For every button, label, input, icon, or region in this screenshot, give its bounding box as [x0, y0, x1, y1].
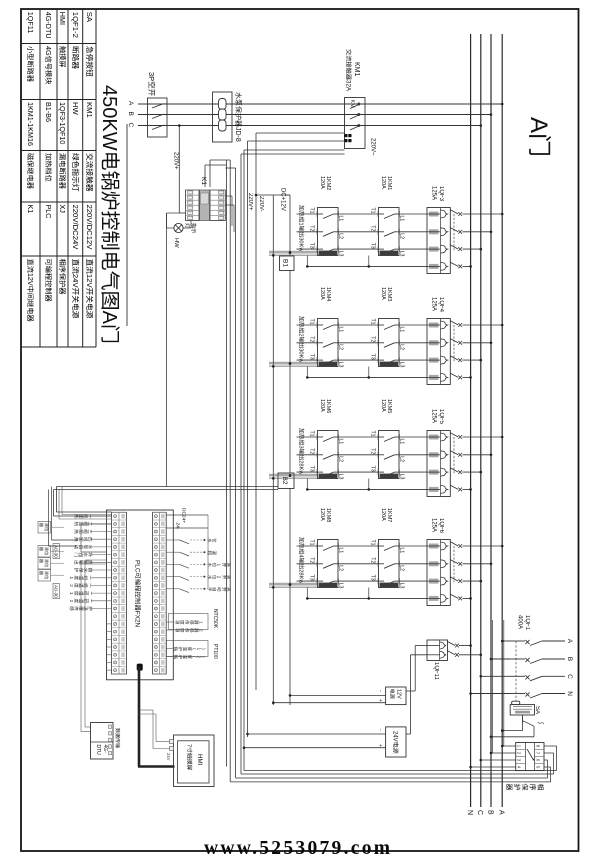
thermal pad 1QF5 pole [429, 435, 439, 440]
legend table [95, 9, 97, 347]
svg-text:KM1: KM1 [85, 102, 94, 118]
breaker contact X mark 1QF4 pole 4 [458, 376, 462, 380]
wire heater output 加热组2输出30Kw [297, 342, 318, 344]
svg-text:1QF1: 1QF1 [524, 615, 530, 631]
junction B2 [278, 473, 294, 489]
thermal pad 1QF4 pole [429, 358, 439, 363]
svg-text:2: 2 [298, 333, 304, 336]
label 加热组1输出30Kw [299, 205, 304, 210]
wire 1QF6 pole 3 from bus C [463, 580, 481, 582]
wire tap parallel to bus B [492, 620, 494, 753]
svg-text:30Kw: 30Kw [298, 237, 304, 252]
contactor 1KM7 120A body [379, 540, 400, 588]
svg-text:A: A [98, 311, 120, 325]
node N stub lower [306, 265, 309, 268]
svg-text:N: N [566, 691, 573, 696]
table cell 可编程控制器 [45, 259, 51, 265]
svg-text:C: C [127, 123, 134, 128]
label 加热组4输出28Kw [299, 537, 304, 542]
wire 1KM3 to 1KM4 phase [338, 324, 379, 326]
bus A (phase A horizontal bus) [501, 34, 503, 807]
node 1QF11 on bus N [469, 644, 472, 647]
dashed trip link 1QF4 [453, 325, 455, 361]
wire 1QF5 to 1KM5 [399, 471, 427, 473]
svg-text:1QF5: 1QF5 [438, 409, 444, 425]
svg-text:T2: T2 [370, 336, 376, 342]
wire 1QF3 to 1KM1 [399, 231, 427, 233]
svg-text:120A: 120A [380, 508, 386, 521]
breaker 1QF4 125A body [427, 319, 450, 385]
breaker blade 1QF3 pole 1 [450, 210, 458, 214]
PLC output wires and labels [91, 515, 112, 517]
coil wire bundle 1KM4 group [269, 361, 318, 363]
wire XJ top loop to control runs [544, 766, 551, 768]
svg-text:T1: T1 [370, 208, 376, 214]
thermal pad 1QF4 pole [429, 375, 439, 380]
wire heater output 加热组3输出28Kw [297, 471, 318, 473]
wire DC24V pair B2 to PLC [57, 486, 279, 488]
protector JD-8 water pump protector [213, 92, 233, 142]
node phase C on bus [480, 124, 483, 127]
svg-text:120A: 120A [380, 176, 386, 189]
node N stub upper [368, 597, 371, 600]
PLC output terminal strip (bottom) [112, 512, 127, 674]
svg-text:1QF11: 1QF11 [26, 12, 35, 33]
svg-text:HW: HW [71, 102, 80, 116]
svg-text:DTU: DTU [95, 745, 101, 756]
breaker contact X mark 1QF6 pole 3 [458, 579, 462, 583]
breaker QS 3P air switch [148, 98, 168, 137]
svg-text:30Kw: 30Kw [298, 348, 304, 363]
thermal pad 1QF6 pole [429, 579, 439, 584]
svg-text:B: B [566, 657, 573, 661]
label water pump protector JD-8 [235, 92, 241, 99]
label switch 超温 [208, 551, 212, 555]
breaker blade 1QF5 pole 2 [450, 451, 458, 455]
svg-text:120A: 120A [319, 287, 325, 300]
lamp HW green indicator [174, 223, 183, 232]
svg-text:A: A [127, 101, 134, 106]
table cell 磁保继电器 [27, 153, 33, 160]
wire 1KM7 to 1KM8 phase [338, 545, 379, 547]
wire 1QF3 pole 1 from bus A [463, 213, 503, 215]
svg-text:1QF3: 1QF3 [438, 186, 444, 202]
1QF1 pole 2 line [542, 658, 565, 660]
wire 1QF4 pole 2 from bus B [463, 342, 492, 344]
contactor 1KM5 120A body [379, 431, 400, 479]
svg-text:T1: T1 [370, 319, 376, 325]
table cell 直流12V中间继电器 [28, 259, 34, 266]
contactor 1KM1 120A body [379, 208, 400, 256]
svg-text:FX2N: FX2N [134, 611, 141, 628]
node 1QF3 pole 1 on bus A [501, 213, 504, 216]
thermal pad 1QF4 pole [429, 340, 439, 345]
label indicator lamp [192, 223, 197, 228]
junction B1 [280, 256, 295, 271]
svg-text:JD-8: JD-8 [234, 127, 241, 142]
wire 1QF3 pole 2 from bus B [463, 231, 492, 233]
thermal pad 1QF5 pole [429, 487, 439, 492]
svg-text:AO-30: AO-30 [53, 545, 58, 558]
breaker blade 1QF3 pole 2 [450, 228, 458, 232]
table cell 加热档位 [45, 153, 52, 159]
wire 1QF6 pole 1 from bus A [463, 545, 503, 547]
breaker contact X mark 1QF5 pole 3 [458, 470, 462, 474]
wire 1QF3 to 1KM1 [399, 248, 427, 250]
svg-text:120A: 120A [319, 176, 325, 189]
svg-text:2: 2 [69, 584, 74, 587]
wire control run 220V group [255, 133, 257, 690]
svg-text:T3: T3 [309, 354, 315, 360]
coil wire bundle 1KM6 group [269, 473, 318, 475]
wire 1QF1 pole 4 to bus N [471, 693, 511, 695]
wire 1QF3 pole 4 from bus N [463, 265, 471, 267]
wire 1KM3 to 1KM4 phase [338, 359, 379, 361]
svg-text:1QF4: 1QF4 [438, 297, 444, 313]
svg-text:32A: 32A [345, 80, 352, 92]
bus N (neutral horizontal bus) [470, 34, 472, 807]
wire lamp connections [183, 227, 191, 229]
node 1QF5 pole 2 on bus B [490, 454, 493, 457]
breaker blade 1QF6 pole 4 [450, 594, 458, 598]
breaker contact X mark 1QF3 pole 4 [458, 265, 462, 269]
svg-text:www.5253079.com: www.5253079.com [204, 838, 392, 859]
svg-text:220V+: 220V+ [247, 193, 253, 211]
svg-text:7: 7 [186, 744, 192, 747]
wire K1 area to PLC supply pair (long run) [166, 213, 168, 487]
svg-text:24V: 24V [71, 274, 80, 289]
thermal pad 1QF3 pole [429, 229, 439, 234]
node coil bundle on feeder DC12V- [272, 254, 275, 257]
wire 1QF1 pole 1 to bus A [502, 640, 510, 642]
svg-text:B2: B2 [281, 477, 288, 485]
coil strip 1KM6 (hatched) [319, 474, 338, 479]
svg-text:12V: 12V [85, 274, 94, 289]
svg-text:HMI: HMI [58, 12, 67, 25]
table cell 绿色指示灯 [72, 153, 79, 160]
svg-text:28Kw: 28Kw [298, 569, 304, 584]
svg-text:4G-: 4G- [102, 745, 108, 754]
node 1QF3 pole 2 on bus B [490, 231, 493, 234]
wire 1QF5 pole 1 from bus A [463, 436, 503, 438]
svg-text:T3: T3 [309, 575, 315, 581]
svg-text:120A: 120A [319, 508, 325, 521]
svg-text:AO-30: AO-30 [53, 585, 58, 598]
svg-text:A: A [498, 810, 505, 815]
dashed trip link 1QF1 to SA [515, 641, 517, 701]
wire 1QF5 pole 2 from bus B [463, 454, 492, 456]
coil strip 1KM1 (hatched) [380, 251, 399, 256]
node 1QF4 pole 3 on bus C [480, 359, 483, 362]
emergency stop SA body [510, 705, 534, 715]
node N stub lower [306, 488, 309, 491]
wire 1QF11 to 12V supply [415, 645, 427, 647]
breaker blade 1QF4 pole 4 [450, 373, 458, 377]
coil terminals KM1 (black squares) [348, 134, 351, 137]
svg-text:220V-: 220V- [258, 196, 264, 212]
thermal pad 1QF5 pole [429, 452, 439, 457]
breaker blade 1QF3 pole 4 [450, 262, 458, 266]
wire 12V outputs to feeder [290, 694, 386, 696]
svg-text:T2: T2 [309, 448, 315, 454]
svg-text:400A: 400A [517, 615, 523, 629]
1QF1 pole 4 line [542, 693, 565, 695]
breaker contact X mark 1QF5 pole 4 [458, 488, 462, 492]
protector XJ phase sequence (8-pin) [516, 743, 544, 771]
breaker blade 1QF4 pole 1 [450, 321, 458, 325]
thermal pad 1QF4 pole [429, 323, 439, 328]
breaker contact X mark 1QF5 pole 2 [458, 453, 462, 457]
svg-text:1: 1 [298, 222, 304, 225]
wire 1QF3 pole 3 from bus C [463, 248, 481, 250]
wire 1KM5 to 1KM6 phase [338, 454, 379, 456]
wire 1KM7 to 1KM8 phase [338, 563, 379, 565]
svg-text:T3: T3 [370, 243, 376, 249]
wire heater output 加热组4输出28Kw [297, 563, 318, 565]
table cell 漏电断路器 [59, 153, 66, 159]
svg-text:T2: T2 [309, 336, 315, 342]
wire 1QF5 to 1KM5 [399, 436, 427, 438]
svg-text:450KW: 450KW [98, 85, 120, 151]
table cell 交流接触器 [86, 153, 93, 160]
contactor 1KM6 120A body [318, 431, 339, 479]
wire 1KM3 to 1KM4 phase [338, 342, 379, 344]
svg-text:DC24+: DC24+ [181, 508, 187, 523]
coil strip 1KM5 (hatched) [380, 474, 399, 479]
svg-text:HW: HW [173, 238, 179, 248]
wire HMI power [156, 741, 170, 743]
svg-text:T1: T1 [370, 540, 376, 546]
svg-text:C: C [476, 810, 483, 815]
svg-text:12V: 12V [26, 273, 35, 286]
switch contact after SA [522, 715, 524, 721]
wire 4G-DTU feed loop [85, 726, 91, 728]
breaker contact X mark 1QF4 pole 2 [458, 341, 462, 345]
contactor 1KM4 120A body [318, 319, 339, 367]
wire phase B feed vertical [138, 114, 491, 116]
wire N pole 1QF4 down [307, 376, 427, 378]
node N stub upper [368, 488, 371, 491]
thermal pad 1QF5 pole [429, 470, 439, 475]
breaker blade 1QF6 pole 3 [450, 577, 458, 581]
node 1QF5 pole 4 on bus N [469, 488, 472, 491]
svg-text:KM1: KM1 [353, 62, 360, 77]
svg-text:220V+: 220V+ [173, 152, 179, 170]
node coil bundle on feeder DC12V+ [289, 362, 292, 365]
breaker contact X mark 1QF3 pole 1 [458, 212, 462, 216]
breaker contact X mark 1QF5 pole 1 [458, 435, 462, 439]
wire 1QF6 pole 2 from bus B [463, 563, 492, 565]
svg-text:1: 1 [69, 592, 74, 595]
node 1QF6 pole 4 on bus N [469, 597, 472, 600]
node N stub lower [306, 376, 309, 379]
switch 水位 input [166, 539, 179, 541]
1QF1 pole 3 line [542, 675, 565, 677]
node phase B on bus [490, 113, 493, 116]
svg-text:T2: T2 [370, 448, 376, 454]
breaker contact X mark 1QF3 pole 3 [458, 247, 462, 251]
svg-text:T1: T1 [309, 431, 315, 437]
HMI power pins [170, 740, 174, 744]
label 温度传感器2 [176, 628, 180, 632]
svg-text:T3: T3 [370, 354, 376, 360]
wire heater output 加热组3输出28Kw [297, 436, 318, 438]
node 1QF3 pole 3 on bus C [480, 248, 483, 251]
switch 超温 input [166, 551, 179, 553]
wire SA circuit to buses [522, 715, 524, 731]
PLC programmable controller body [107, 510, 174, 680]
svg-text:PLC: PLC [134, 560, 141, 573]
svg-text:125A: 125A [431, 518, 437, 532]
breaker blade 1QF4 pole 3 [450, 356, 458, 360]
svg-text:24V: 24V [166, 753, 171, 761]
svg-text:1QF3-1QF10: 1QF3-1QF10 [58, 102, 67, 144]
svg-text:T3: T3 [370, 466, 376, 472]
wire 1QF6 to 1KM7 [399, 563, 427, 565]
breaker blade 1QF6 pole 2 [450, 560, 458, 564]
wire heater output 加热组1输出30Kw [297, 248, 318, 250]
wire 24V outputs [248, 733, 386, 735]
svg-text:T2: T2 [370, 557, 376, 563]
svg-text:A: A [566, 639, 573, 644]
svg-text:24-: 24- [175, 523, 181, 530]
breaker contact X mark 1QF4 pole 3 [458, 358, 462, 362]
wire heater output 加热组1输出30Kw [297, 213, 318, 215]
wire loops into PLC outputs [62, 514, 112, 516]
label 温度传感器1 [176, 620, 180, 624]
node coil bundle on feeder DC12V- [272, 586, 275, 589]
dashed trip link 1QF6 [453, 546, 455, 582]
node phase A on bus [501, 103, 504, 106]
node 1QF6 pole 1 on bus A [501, 545, 504, 548]
svg-text:1QF11: 1QF11 [433, 662, 439, 681]
svg-text:120A: 120A [380, 399, 386, 412]
boxed device labels below PLC [38, 522, 51, 534]
svg-text:HMI: HMI [196, 754, 203, 766]
wire 1QF4 pole 1 from bus A [463, 324, 503, 326]
svg-text:+: + [377, 744, 383, 747]
module 4G-DTU [91, 723, 114, 760]
wire 1QF4 to 1KM3 [399, 359, 427, 361]
wire N pole 1QF3 down [307, 265, 427, 267]
switch 水位1开关 input [166, 563, 179, 565]
label 锅炉温度(2) [174, 655, 178, 659]
wire heater output 加热组4输出28Kw [297, 545, 318, 547]
breaker blade 1QF5 pole 4 [450, 485, 458, 489]
wire 1KM1 to 1KM2 phase [338, 231, 379, 233]
breaker blade 1QF5 pole 1 [450, 433, 458, 437]
table cell 断路器 [72, 47, 79, 54]
svg-text:PLC: PLC [44, 205, 53, 219]
svg-text:125A: 125A [431, 297, 437, 311]
svg-text:B1: B1 [282, 259, 289, 267]
svg-text:1QF6: 1QF6 [438, 518, 444, 534]
breaker contact X mark 1QF6 pole 2 [458, 562, 462, 566]
dashed trip link 1QF5 [453, 437, 455, 473]
svg-text:K1: K1 [26, 205, 35, 214]
wire phase C feed vertical [138, 125, 481, 127]
HMI touch screen inner [178, 741, 210, 783]
svg-text:T1: T1 [309, 540, 315, 546]
coil wire bundle 1KM8 group [269, 582, 318, 584]
wire control run left hookups [256, 194, 290, 196]
svg-text:T3: T3 [309, 466, 315, 472]
svg-text:24V: 24V [392, 731, 398, 742]
relay K1 socket bottom terminal strip [186, 190, 200, 221]
wire 1QF3 to 1KM1 [399, 213, 427, 215]
svg-text:A: A [525, 117, 552, 133]
wire 220V control tap [178, 126, 180, 214]
thermal pad 1QF3 pole [429, 247, 439, 252]
label 加热组3输出28Kw [299, 428, 304, 433]
svg-text:K1: K1 [200, 177, 207, 185]
wire 1QF11 to 24V supply [411, 654, 428, 656]
svg-text:220V/DC12V: 220V/DC12V [85, 205, 94, 251]
node N stub lower [306, 597, 309, 600]
node coil bundle on feeder DC12V+ [289, 251, 292, 254]
spring squiggle [538, 722, 544, 724]
table cell 触摸屏 [59, 46, 66, 53]
node 1QF4 pole 4 on bus N [469, 376, 472, 379]
node coil bundle on feeder DC12V+ [289, 474, 292, 477]
label AO-30 connector 2 [53, 584, 60, 599]
title overline [126, 124, 128, 326]
svg-text:B1-B6: B1-B6 [44, 102, 53, 122]
table cell 直流24V开关电源 [72, 259, 79, 266]
svg-text:NTC50K: NTC50K [212, 609, 218, 629]
wire right loop lower corners [139, 766, 227, 768]
wire phase A feed vertical [138, 103, 502, 105]
wire 1QF4 to 1KM3 [399, 324, 427, 326]
svg-text:12V: 12V [396, 689, 402, 699]
svg-text:B: B [487, 810, 494, 815]
contactor 1KM2 120A body [318, 208, 339, 256]
HMI touch screen outer [174, 735, 215, 787]
wire heater output 加热组2输出30Kw [297, 324, 318, 326]
node 1QF4 pole 1 on bus A [501, 324, 504, 327]
breaker 1QF5 125A body [427, 431, 450, 497]
node 1QF4 pole 2 on bus B [490, 342, 493, 345]
breaker blade 1QF6 pole 1 [450, 542, 458, 546]
svg-text:2: 2 [69, 600, 74, 603]
svg-text:4G: 4G [44, 46, 53, 56]
breaker blade 1QF3 pole 3 [450, 245, 458, 249]
coil strip 1KM2 (hatched) [319, 251, 338, 256]
wire heater output 加热组2输出30Kw [297, 359, 318, 361]
node N stub upper [368, 376, 371, 379]
breaker 1QF6 125A body [427, 540, 450, 606]
coil wire bundle 1KM2 group [269, 250, 318, 252]
svg-text:SA: SA [534, 706, 540, 714]
svg-text:C: C [566, 674, 573, 679]
wire KM1 coil to control loop [256, 132, 345, 134]
svg-text:220V/DC24V: 220V/DC24V [71, 205, 80, 251]
coil strip 1KM7 (hatched) [380, 583, 399, 588]
svg-text:XJ: XJ [58, 205, 67, 214]
emergency stop SA mushroom head [512, 701, 520, 704]
svg-text:120A: 120A [380, 287, 386, 300]
label switch 水位2开关 [208, 575, 212, 579]
svg-text:N: N [466, 810, 473, 815]
coil strip 1KM3 (hatched) [380, 362, 399, 367]
svg-text:+: + [377, 699, 383, 702]
svg-text:3P: 3P [147, 72, 156, 81]
node 1QF1 pole 4 on bus N [469, 692, 472, 695]
node coil bundle on feeder DC12V+ [289, 583, 292, 586]
contactor 1KM8 120A body [318, 540, 339, 588]
svg-text:T2: T2 [370, 225, 376, 231]
wire 1QF6 to 1KM7 [399, 545, 427, 547]
